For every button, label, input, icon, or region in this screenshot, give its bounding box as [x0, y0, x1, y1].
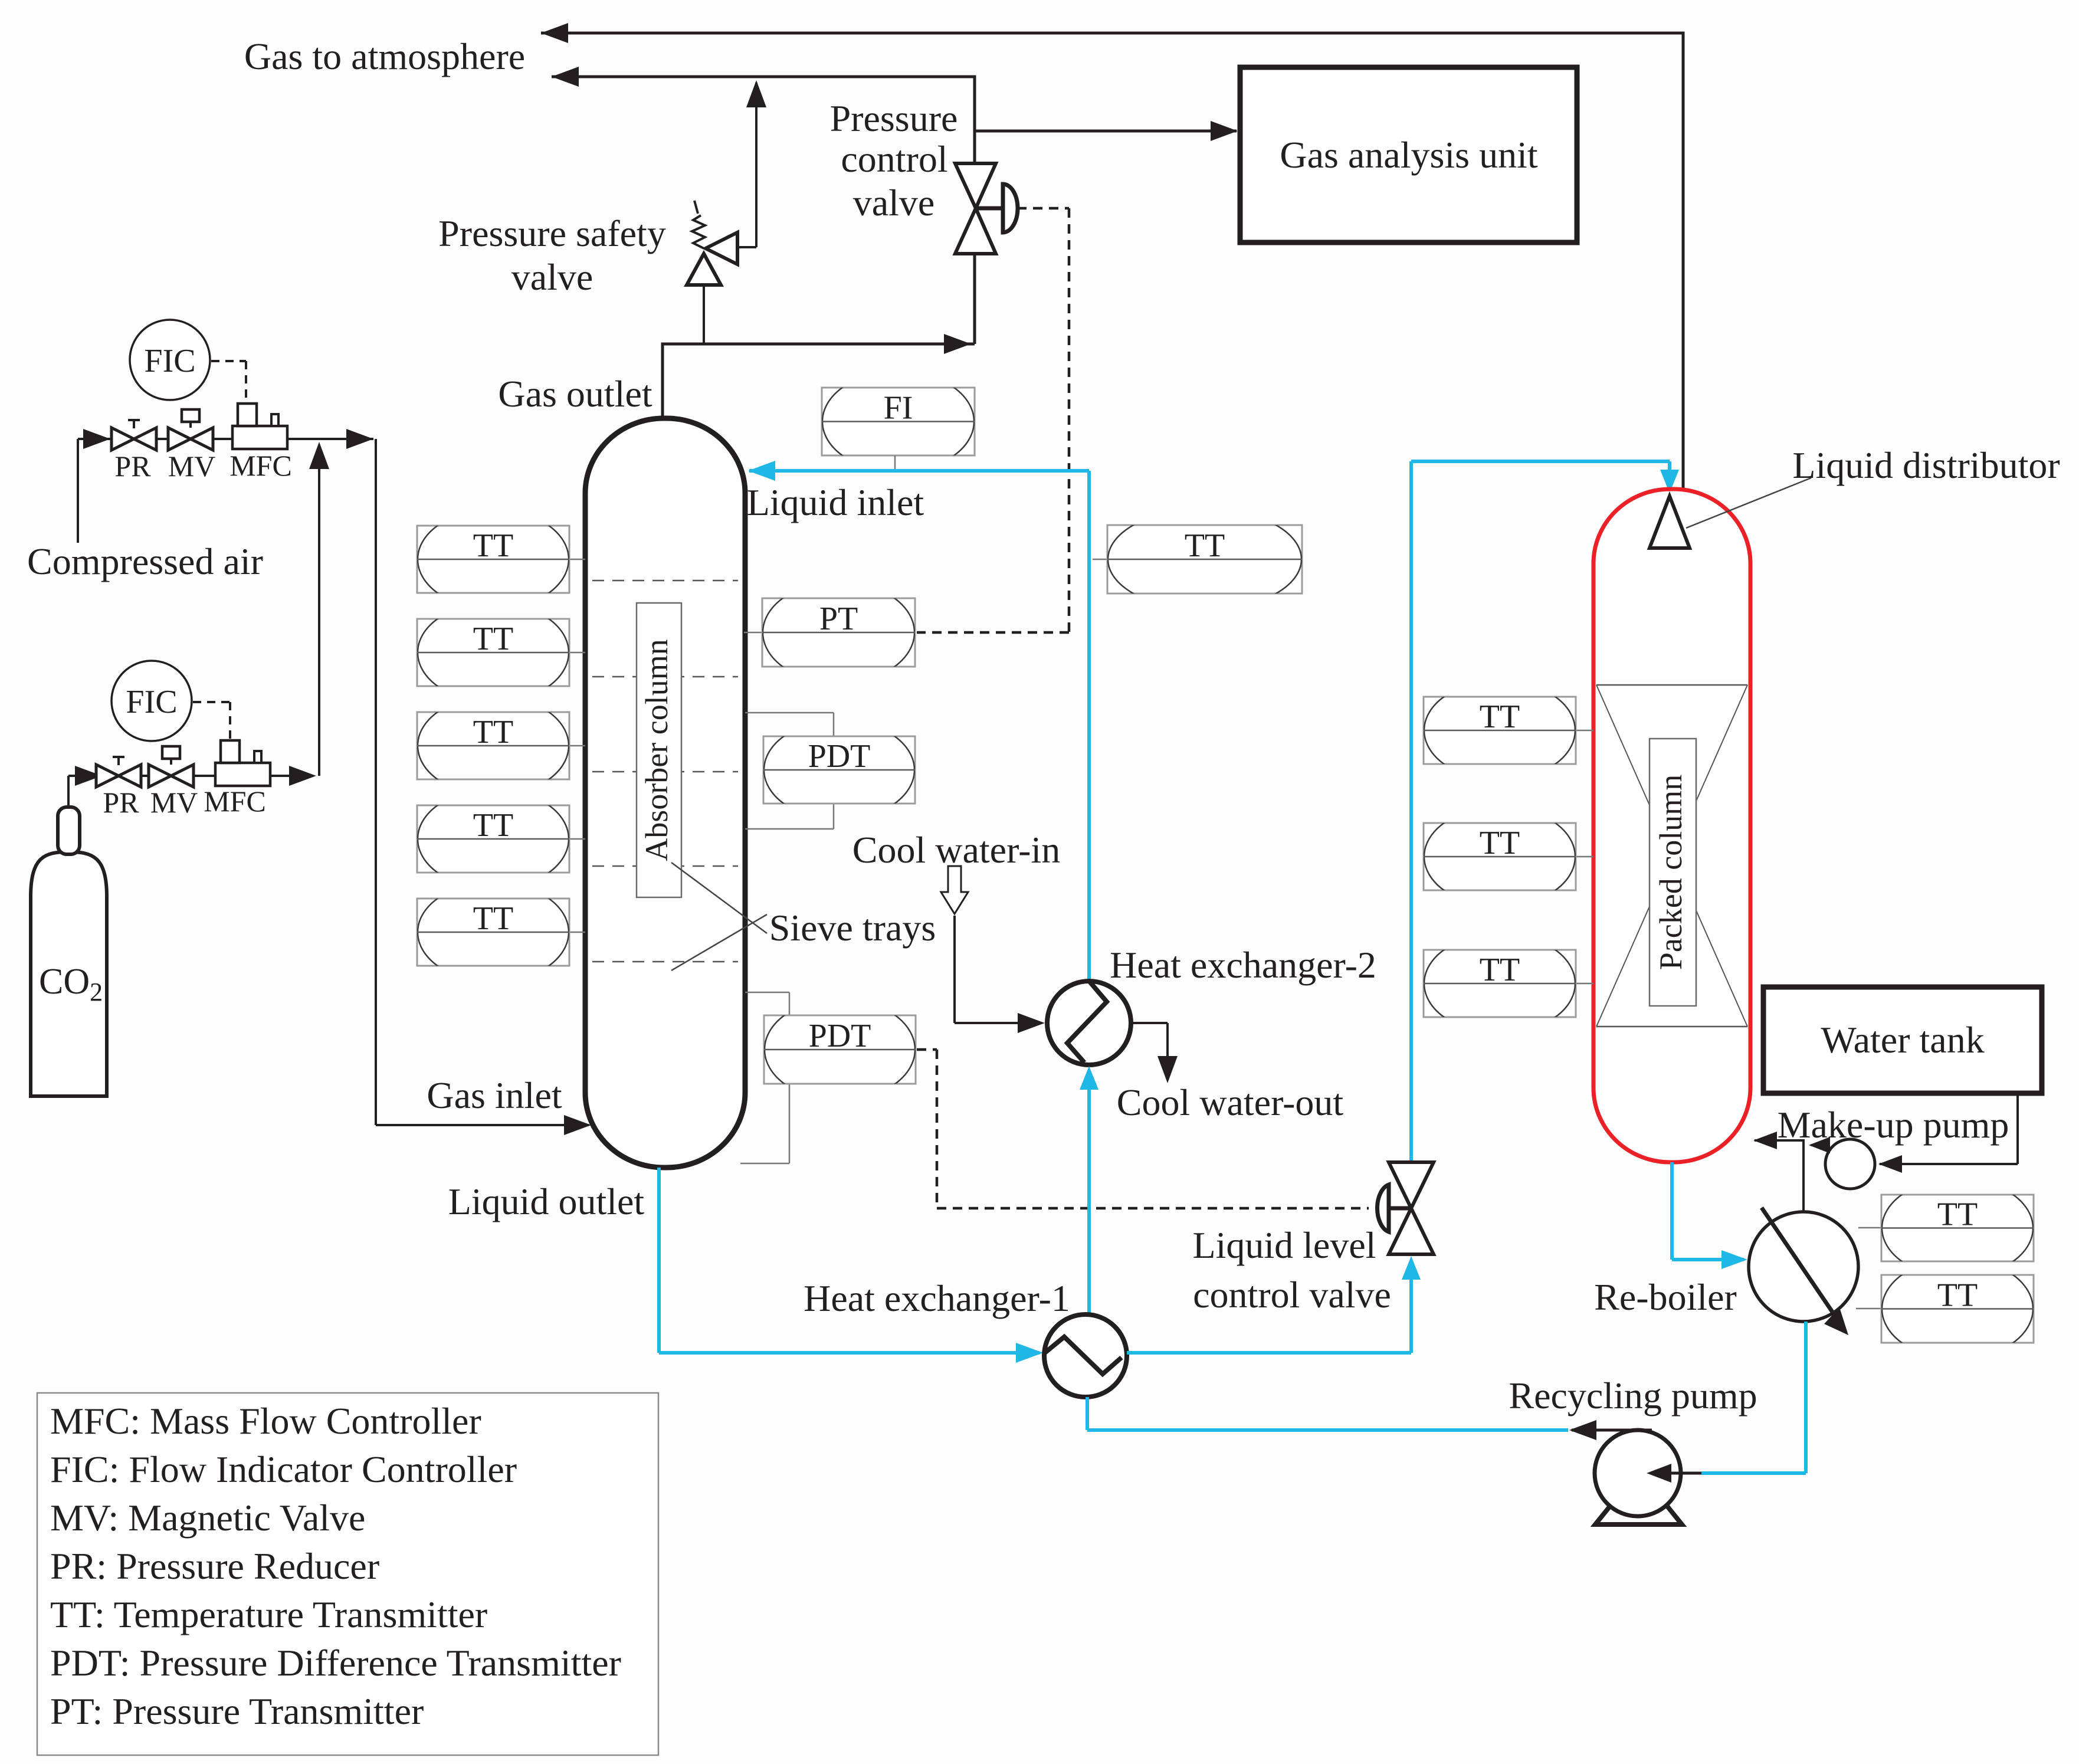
wire cool water out [1131, 1022, 1168, 1024]
svg-text:MV: MV [150, 786, 198, 819]
valve MV (air) with solenoid [168, 428, 191, 450]
arrow cool water into HX-2 [1018, 1013, 1045, 1033]
svg-text:TT: TT [1937, 1196, 1978, 1233]
wire cyan HX-2 to HX-1 [1087, 1088, 1091, 1314]
svg-text:MFC: Mass Flow Controller: MFC: Mass Flow Controller [50, 1400, 481, 1442]
PDT-2 taps [745, 992, 789, 994]
TT transmitter absorber 5 [417, 883, 569, 982]
svg-text:Liquid distributor: Liquid distributor [1792, 444, 2060, 486]
TT transmitter absorber 1 connector [569, 559, 585, 560]
svg-text:Gas analysis unit: Gas analysis unit [1280, 134, 1538, 176]
arrow CO2 to junction [289, 766, 316, 786]
svg-text:TT: TT [1185, 527, 1225, 564]
wire dashed control signal valve to PT [1017, 207, 1069, 210]
svg-text:MV: Magnetic Valve: MV: Magnetic Valve [50, 1497, 365, 1539]
wire compressed air stub [77, 439, 79, 543]
MFC (CO2) body [215, 763, 270, 786]
wire CO2 stub [67, 776, 70, 807]
wire cool water to HX-2 [953, 916, 956, 1023]
svg-text:control: control [841, 138, 947, 180]
cool water-in hollow arrow [941, 866, 968, 914]
FIC controller (CO2) [112, 661, 192, 741]
TT transmitter packed column 1 [1424, 681, 1576, 781]
arrow air feed [83, 429, 110, 449]
absorber column vessel [585, 418, 745, 1168]
PT transmitter connector [744, 632, 762, 634]
sieve tray dashed line 1 [592, 580, 738, 582]
arrow pump inlet [1647, 1464, 1671, 1483]
valve PR (air) with handle [112, 428, 134, 450]
svg-text:TT: TT [1480, 825, 1520, 861]
svg-text:Gas outlet: Gas outlet [498, 373, 652, 415]
arrow cyan into level valve [1402, 1256, 1421, 1280]
wire air PR-MV [156, 438, 169, 440]
svg-text:FI: FI [884, 390, 913, 427]
svg-text:PR: PR [114, 450, 151, 483]
svg-text:Pressure: Pressure [830, 97, 958, 139]
pressure control valve bowtie [955, 163, 996, 208]
MFC (air) body [232, 426, 287, 449]
arrow pump outlet [1569, 1420, 1596, 1440]
svg-text:PT: Pressure Transmitter: PT: Pressure Transmitter [50, 1690, 424, 1732]
arrow liquid inlet [748, 461, 775, 481]
TT transmitter absorber 5 connector [569, 932, 585, 933]
svg-text:TT: TT [1937, 1277, 1978, 1314]
arrow cyan into packed column top [1660, 470, 1679, 493]
svg-text:PDT: PDT [808, 738, 871, 775]
svg-text:Packed column: Packed column [1653, 775, 1688, 970]
svg-text:Gas to atmosphere: Gas to atmosphere [244, 35, 525, 77]
arrow cyan into HX-1 [1016, 1343, 1043, 1363]
arrow CO2 feed [75, 766, 102, 786]
liquid level control valve actuator [1388, 1206, 1411, 1211]
TT transmitter packed column 1 connector [1576, 730, 1593, 732]
arrow re-boiler heating element [1824, 1307, 1848, 1335]
sieve trays pointer lines [671, 863, 767, 933]
wire CO2 PR-MV [141, 775, 150, 777]
CO2 cylinder [31, 852, 107, 1096]
wire cyan pump outlet to HX-1 [1087, 1428, 1568, 1432]
packed column vessel [1593, 489, 1750, 1162]
svg-text:MV: MV [168, 450, 216, 483]
svg-text:control valve: control valve [1193, 1274, 1391, 1316]
TT transmitter packed column 2 connector [1576, 856, 1593, 858]
svg-text:Gas inlet: Gas inlet [427, 1074, 562, 1116]
wire CO2 MFC to junction riser [270, 775, 313, 777]
TT transmitter packed column 2 [1424, 807, 1576, 907]
svg-text:FIC: FIC [126, 684, 177, 720]
arrow gas-to-atmosphere second [552, 67, 579, 87]
FI connector [894, 455, 896, 469]
wire gas line packed-column riser to atmosphere (top) [541, 32, 1683, 35]
svg-text:PDT: Pressure Difference Trans: PDT: Pressure Difference Transmitter [50, 1642, 621, 1684]
wire pump inlet black [1652, 1472, 1701, 1475]
TT transmitter liquid line connector [1093, 559, 1107, 560]
arrow cyan into HX-2 bottom [1080, 1066, 1098, 1090]
recycling pump [1595, 1430, 1681, 1516]
packed column label box [1650, 739, 1696, 1006]
svg-text:PT: PT [819, 601, 858, 637]
wire make-up junction to packed column [1755, 1139, 1803, 1142]
liquid distributor [1650, 496, 1690, 548]
arrow gas inlet into absorber [564, 1115, 591, 1135]
svg-text:Liquid inlet: Liquid inlet [747, 481, 924, 523]
arrow into gas analysis unit [1211, 121, 1238, 141]
re-boiler [1749, 1212, 1858, 1322]
sieve tray dashed line 5 [592, 961, 738, 963]
TT transmitter absorber 4 [417, 789, 569, 889]
FIC controller (air) [130, 320, 210, 400]
wire CO2 MV-MFC [194, 775, 215, 777]
pressure safety valve spring [692, 201, 705, 248]
svg-text:TT: TT [473, 714, 513, 750]
TT re-boiler 2 [1881, 1258, 2034, 1359]
PT transmitter [762, 582, 915, 683]
svg-text:TT: Temperature Transmitter: TT: Temperature Transmitter [50, 1593, 487, 1635]
svg-text:TT: TT [473, 527, 513, 564]
svg-text:Liquid level: Liquid level [1192, 1224, 1376, 1266]
heat exchanger-1 [1044, 1314, 1127, 1397]
pressure safety valve body triangle [687, 254, 721, 285]
svg-text:TT: TT [473, 807, 513, 844]
svg-text:Recycling pump: Recycling pump [1509, 1375, 1757, 1417]
wire dashed FIC-MFC (CO2) [193, 701, 230, 703]
svg-text:Compressed air: Compressed air [27, 540, 263, 582]
PDT-1 transmitter [763, 720, 915, 820]
wire cyan liquid inlet to absorber [1087, 471, 1091, 980]
wire air MV-MFC [213, 438, 232, 440]
wire branch to gas analysis unit [975, 130, 1237, 133]
arrow make-up to junction [1809, 1137, 1830, 1153]
wire make-up pump outlet [1811, 1144, 1824, 1146]
sieve tray dashed line 2 [592, 676, 738, 678]
svg-text:Re-boiler: Re-boiler [1594, 1276, 1737, 1318]
water tank box [1763, 987, 2042, 1093]
svg-text:TT: TT [473, 621, 513, 657]
TT re-boiler 1 connector [1858, 1227, 1881, 1229]
svg-text:Pressure safety: Pressure safety [438, 212, 666, 254]
TT transmitter packed column 3 connector [1576, 983, 1593, 985]
wire cyan packed column to re-boiler [1670, 1162, 1674, 1260]
PDT-1 taps [745, 712, 834, 714]
wire tank to make-up pump [2016, 1093, 2019, 1164]
svg-text:Liquid outlet: Liquid outlet [448, 1181, 645, 1222]
svg-text:FIC: FIC [144, 343, 195, 379]
TT re-boiler 1 [1881, 1179, 2034, 1277]
wire safety valve inlet stub [703, 284, 705, 344]
arrow cool water out [1157, 1056, 1178, 1083]
TT transmitter absorber 1 [417, 510, 569, 609]
wire pump outlet black [1572, 1429, 1652, 1432]
heat exchanger-2 [1047, 981, 1131, 1065]
svg-text:MFC: MFC [229, 449, 292, 482]
wire cyan level valve to packed column [1409, 461, 1413, 1163]
svg-text:valve: valve [511, 256, 593, 298]
TT transmitter liquid line [1107, 509, 1302, 610]
packing section lines [1596, 684, 1747, 686]
pressure safety valve outlet triangle [706, 232, 737, 264]
legend box [37, 1393, 658, 1755]
svg-text:Heat exchanger-2: Heat exchanger-2 [1110, 944, 1376, 986]
FI transmitter [822, 371, 975, 471]
arrow air to junction [346, 429, 373, 449]
absorber column label box [637, 603, 681, 897]
svg-text:Water tank: Water tank [1821, 1019, 1984, 1061]
svg-text:Make-up pump: Make-up pump [1778, 1104, 2009, 1146]
wire mixed gas riser down to gas inlet [375, 439, 377, 1125]
gas analysis unit box [1240, 67, 1577, 242]
svg-text:MFC: MFC [204, 785, 266, 818]
arrow CO2 riser up into air line [309, 442, 329, 469]
TT transmitter absorber 2 connector [569, 652, 585, 654]
arrow into make-up pump [1878, 1155, 1902, 1173]
TT transmitter absorber 4 connector [569, 838, 585, 840]
TT transmitter absorber 2 [417, 603, 569, 703]
svg-text:TT: TT [1480, 699, 1520, 735]
svg-text:Cool water-in: Cool water-in [852, 829, 1060, 871]
wire gas outlet pipe from absorber [661, 344, 664, 418]
PDT-2 transmitter [764, 999, 916, 1100]
svg-text:TT: TT [1480, 952, 1520, 988]
TT transmitter absorber 3 connector [569, 745, 585, 747]
svg-text:PR: Pressure Reducer: PR: Pressure Reducer [50, 1545, 379, 1587]
wire dashed PDT-2 to level valve [917, 1048, 937, 1051]
svg-text:Heat exchanger-1: Heat exchanger-1 [804, 1277, 1070, 1319]
svg-text:valve: valve [853, 182, 935, 224]
wire cyan absorber liquid outlet [657, 1168, 661, 1353]
svg-text:Absorber column: Absorber column [639, 639, 674, 861]
arrow on gas outlet pipe [944, 334, 971, 354]
svg-text:Cool water-out: Cool water-out [1117, 1081, 1344, 1123]
svg-text:FIC: Flow Indicator Controller: FIC: Flow Indicator Controller [50, 1448, 517, 1490]
arrow gas-to-atmosphere top [541, 23, 568, 43]
make-up pump [1825, 1139, 1875, 1189]
arrow cyan into re-boiler [1721, 1250, 1747, 1269]
svg-text:PDT: PDT [809, 1018, 871, 1054]
wire dashed FIC-MFC (air) [211, 360, 246, 362]
valve PR (CO2) with handle [96, 765, 119, 787]
liquid level control valve bowtie [1389, 1162, 1434, 1208]
TT re-boiler 2 connector [1856, 1308, 1881, 1310]
valve MV (CO2) with solenoid [149, 765, 171, 787]
wire air MFC to mix junction [287, 438, 373, 440]
svg-text:TT: TT [473, 900, 513, 937]
sieve tray dashed line 4 [592, 865, 738, 867]
arrow safety valve vent up [746, 80, 766, 107]
svg-text:Sieve trays: Sieve trays [769, 907, 936, 949]
pressure control valve actuator [976, 206, 1002, 211]
liquid distributor pointer [1686, 478, 1811, 528]
sieve tray dashed line 3 [592, 771, 738, 773]
svg-text:PR: PR [103, 786, 139, 819]
wire cyan HX-1 to level valve riser [1127, 1351, 1411, 1355]
TT transmitter packed column 3 [1424, 934, 1576, 1034]
wire gas line B control-valve to atmosphere [552, 76, 975, 78]
arrow make-up into packed column [1753, 1132, 1777, 1149]
wire pressure safety valve riser [736, 246, 756, 248]
TT transmitter absorber 3 [417, 696, 569, 796]
wire cyan re-boiler to pump [1804, 1322, 1808, 1473]
